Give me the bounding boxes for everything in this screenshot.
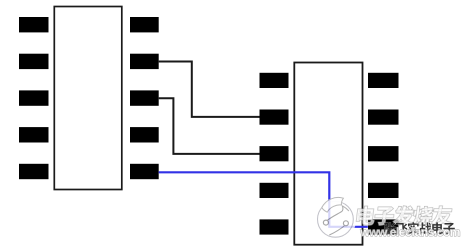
U2 pin 8 — [368, 146, 399, 161]
U2 pin 9 — [368, 110, 399, 125]
U1 pin 2 — [19, 54, 49, 69]
U1 pin 8 — [130, 90, 159, 105]
wire U1.8 to U2.3 — [159, 98, 260, 154]
U2 pin 3 — [260, 146, 289, 161]
watermark text dianzifashaoyou — [356, 206, 453, 225]
watermark text elecfans url — [360, 227, 460, 236]
IC U2 body — [294, 63, 362, 245]
U1 pin 5 — [19, 164, 49, 179]
watermark logo bottom stroke — [329, 225, 346, 235]
U2 pin 1 — [260, 73, 289, 88]
wire U1.6 to U2.6 (blue net) — [159, 172, 368, 227]
U2 pin 7 — [368, 183, 399, 198]
watermark logo node left — [323, 220, 328, 225]
U1 pin 6 — [130, 164, 159, 179]
watermark text zhangfei dark — [384, 222, 455, 234]
U2 pin 5 — [260, 219, 289, 234]
watermark logo node right — [343, 221, 348, 226]
watermark logo circle — [316, 197, 355, 238]
U2 pin 2 — [260, 110, 289, 125]
U2 pin 10 — [368, 73, 399, 88]
U2 pin 6 — [368, 219, 399, 234]
U1 pin 10 — [130, 17, 159, 32]
U1 pin 7 — [130, 127, 159, 142]
wire U1.9 to U2.2 — [159, 62, 260, 117]
U1 pin 9 — [130, 54, 159, 69]
IC U1 body — [54, 7, 122, 190]
U1 pin 4 — [19, 127, 49, 142]
U1 pin 1 — [19, 17, 49, 32]
U2 pin 4 — [260, 183, 289, 198]
U1 pin 3 — [19, 90, 49, 105]
watermark logo flame — [322, 197, 344, 212]
watermark logo swoosh — [327, 206, 343, 221]
